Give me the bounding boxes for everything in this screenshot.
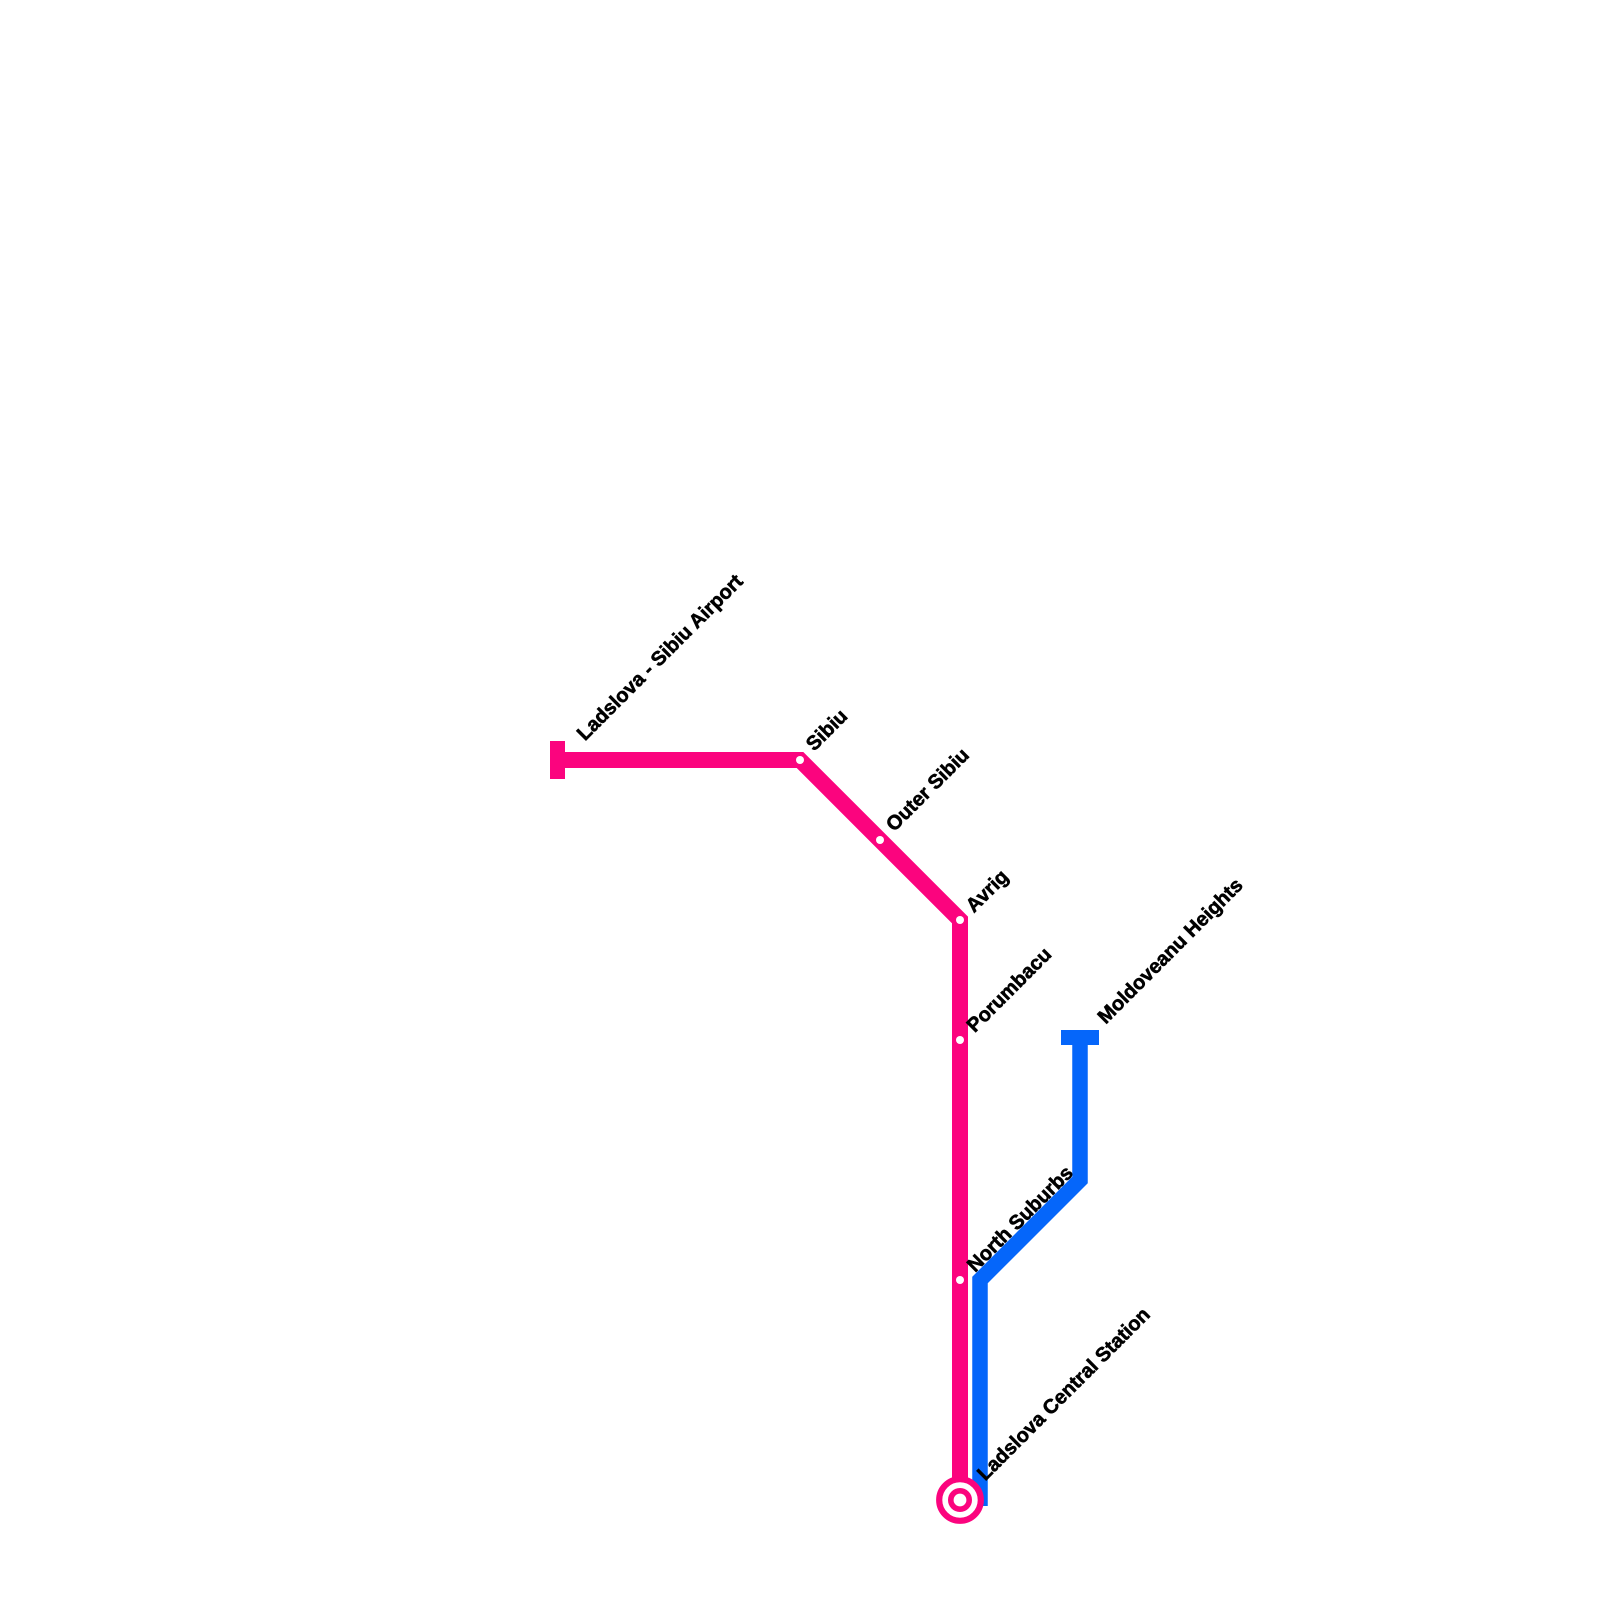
line: Pink route (Airport - Central Station): [558, 760, 961, 1500]
station dot: Sibiu: [796, 756, 804, 764]
station dot: Outer Sibiu: [876, 836, 884, 844]
line: Blue route (Moldoveanu Heights - Central Station): [980, 1038, 1080, 1507]
terminus bar: Ladslova - Sibiu Airport: [550, 741, 565, 779]
station dot: North Suburbs: [956, 1276, 964, 1284]
terminus bar: Moldoveanu Heights: [1061, 1030, 1099, 1045]
station dot: Avrig: [956, 916, 964, 924]
interchange terminus: Ladslova Central Station outer ring: [939, 1479, 981, 1521]
station dot: Porumbacu: [956, 1036, 964, 1044]
interchange terminus: Ladslova Central Station inner ring: [951, 1491, 969, 1509]
